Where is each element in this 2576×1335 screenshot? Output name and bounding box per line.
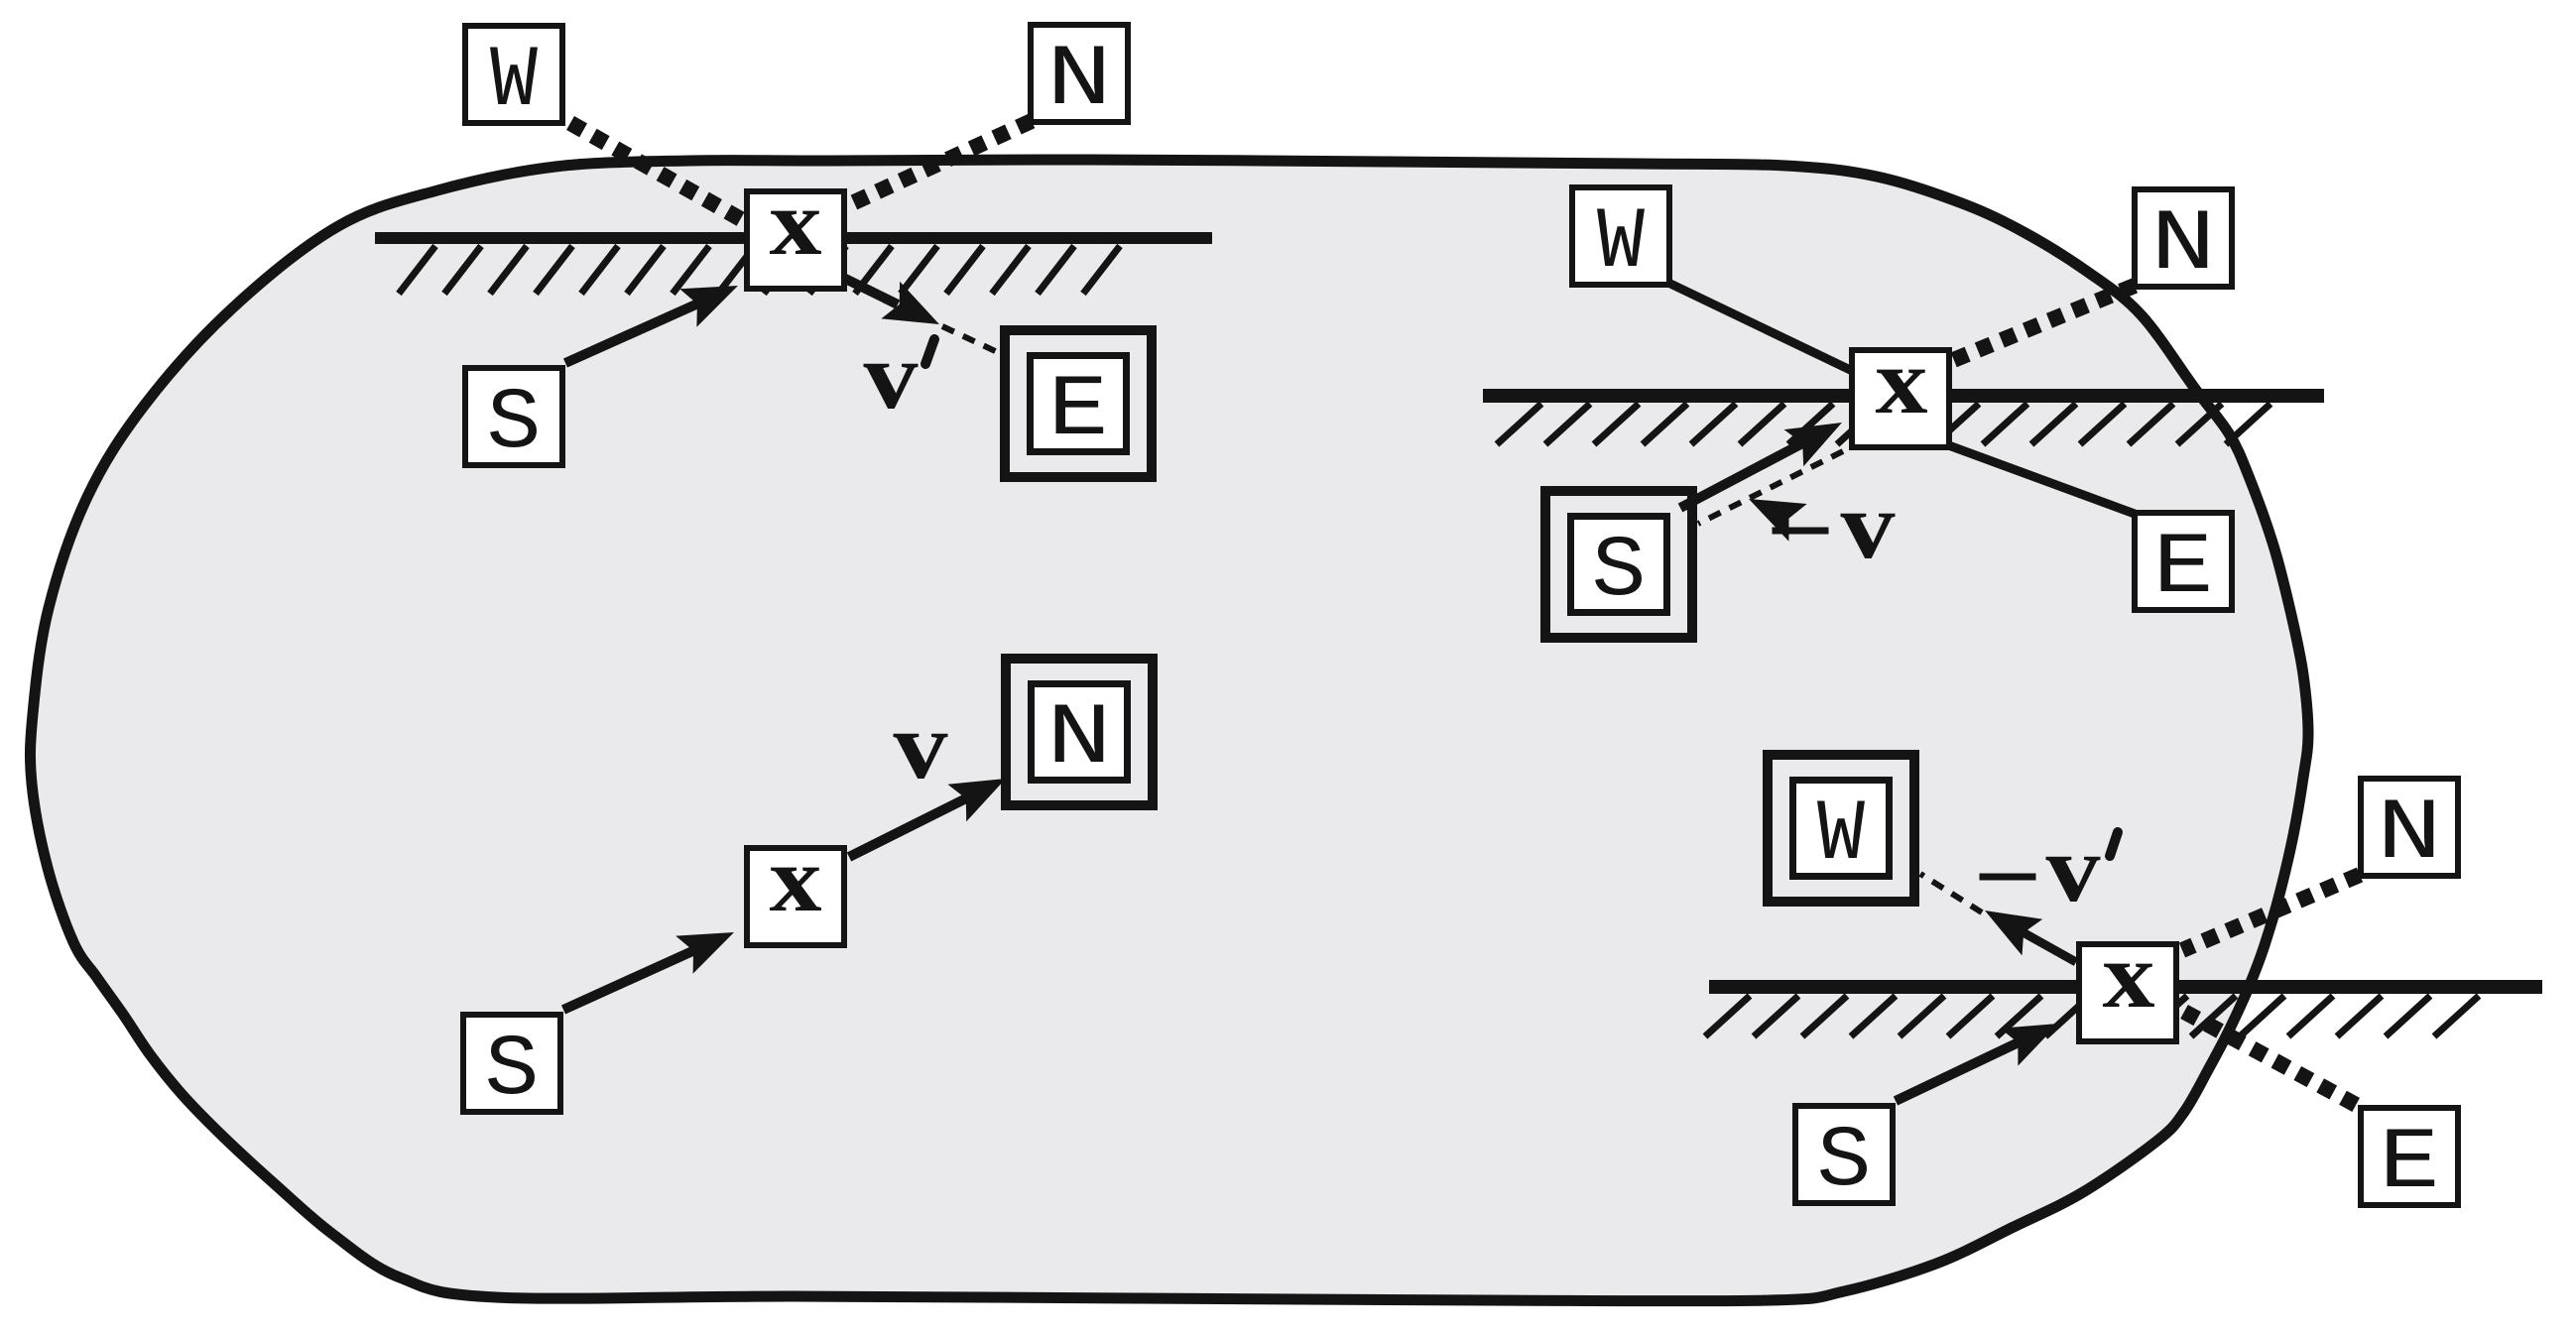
scene2 N box — [2135, 189, 2232, 295]
scene1 tangent line at x — [375, 232, 1212, 244]
scene2 W box — [1572, 187, 1669, 293]
scene2 line x-E — [1924, 436, 2135, 514]
svg-text:W: W — [490, 34, 539, 131]
scene2 tangent line at x — [1483, 389, 2324, 403]
svg-text:x: x — [1876, 330, 1928, 433]
scene4 arrow x to W (-v') — [1985, 910, 2076, 962]
scene2 x box — [1852, 330, 1949, 447]
svg-text:E: E — [1048, 363, 1109, 460]
scene2 S double box — [1545, 491, 1692, 638]
scene4 x box — [2079, 924, 2176, 1041]
scene3 x box — [747, 828, 844, 945]
scene1 hatching — [399, 246, 1120, 294]
scene1 N box — [1031, 25, 1128, 130]
scene1 dotted line x-W — [570, 123, 764, 232]
svg-text:v: v — [894, 692, 948, 798]
scene4 N box — [2361, 779, 2458, 884]
scene1 dotted line x-N — [841, 121, 1032, 208]
scene2 arrow S to x — [1680, 423, 1842, 508]
scene1 arrow S to x — [565, 286, 738, 363]
svg-text:x: x — [2103, 924, 2155, 1028]
svg-text:v: v — [2046, 815, 2101, 921]
scene1 label v' — [864, 322, 935, 428]
scene4 E box — [2361, 1108, 2458, 1213]
scene4 dotted line x-E — [2184, 1012, 2360, 1107]
scene1 W box — [465, 26, 562, 131]
scene4 dashed line to W — [1920, 874, 1982, 912]
scene1 x box — [747, 172, 844, 289]
svg-text:S: S — [487, 376, 542, 473]
scene4 dotted line x-N — [2182, 875, 2360, 950]
scene4 W double box — [1768, 755, 1914, 902]
svg-text:N: N — [1046, 33, 1112, 130]
svg-text:v: v — [1841, 472, 1896, 578]
scene4 label -v' — [1980, 815, 2119, 921]
scene1 dashed line to E — [942, 326, 1006, 356]
svg-text:S: S — [485, 1023, 540, 1120]
scene2 dashed arrow x to S (-v) — [1698, 451, 1843, 542]
svg-text:v: v — [864, 322, 919, 428]
scene4 S box — [1795, 1106, 1893, 1211]
scene2 dotted line x-N — [1924, 286, 2135, 372]
svg-text:W: W — [1597, 195, 1646, 293]
scene2 label -v — [1773, 472, 1896, 578]
svg-text:x: x — [770, 172, 822, 275]
scene3 arrow x to N (v) — [849, 779, 1006, 857]
scene3 arrow S to x — [563, 932, 734, 1010]
scene1 arrow x to E (v') — [829, 271, 939, 324]
domain (stadium table) — [30, 160, 2308, 1301]
svg-text:W: W — [1817, 788, 1866, 885]
svg-text:S: S — [1817, 1114, 1872, 1211]
scene3 S box — [463, 1015, 560, 1120]
scene4 tangent line at x — [1709, 980, 2542, 994]
svg-text:N: N — [2377, 787, 2442, 884]
svg-text:N: N — [1046, 691, 1112, 789]
svg-text:S: S — [1592, 524, 1647, 621]
scene1 E double box — [1005, 330, 1152, 477]
scene2 hatching — [1497, 404, 2270, 444]
scene4 arrow S to x — [1896, 1024, 2058, 1101]
svg-text:E: E — [2153, 521, 2214, 618]
scene2 E box — [2135, 513, 2232, 618]
svg-text:x: x — [770, 828, 822, 931]
svg-text:E: E — [2380, 1116, 2440, 1213]
scene2 line x-W — [1670, 284, 1865, 377]
svg-text:N: N — [2150, 197, 2216, 295]
scene1 S box — [465, 368, 562, 473]
scene3 label v — [894, 692, 948, 798]
scene4 hatching — [1705, 996, 2479, 1036]
scene3 N double box — [1006, 659, 1153, 805]
